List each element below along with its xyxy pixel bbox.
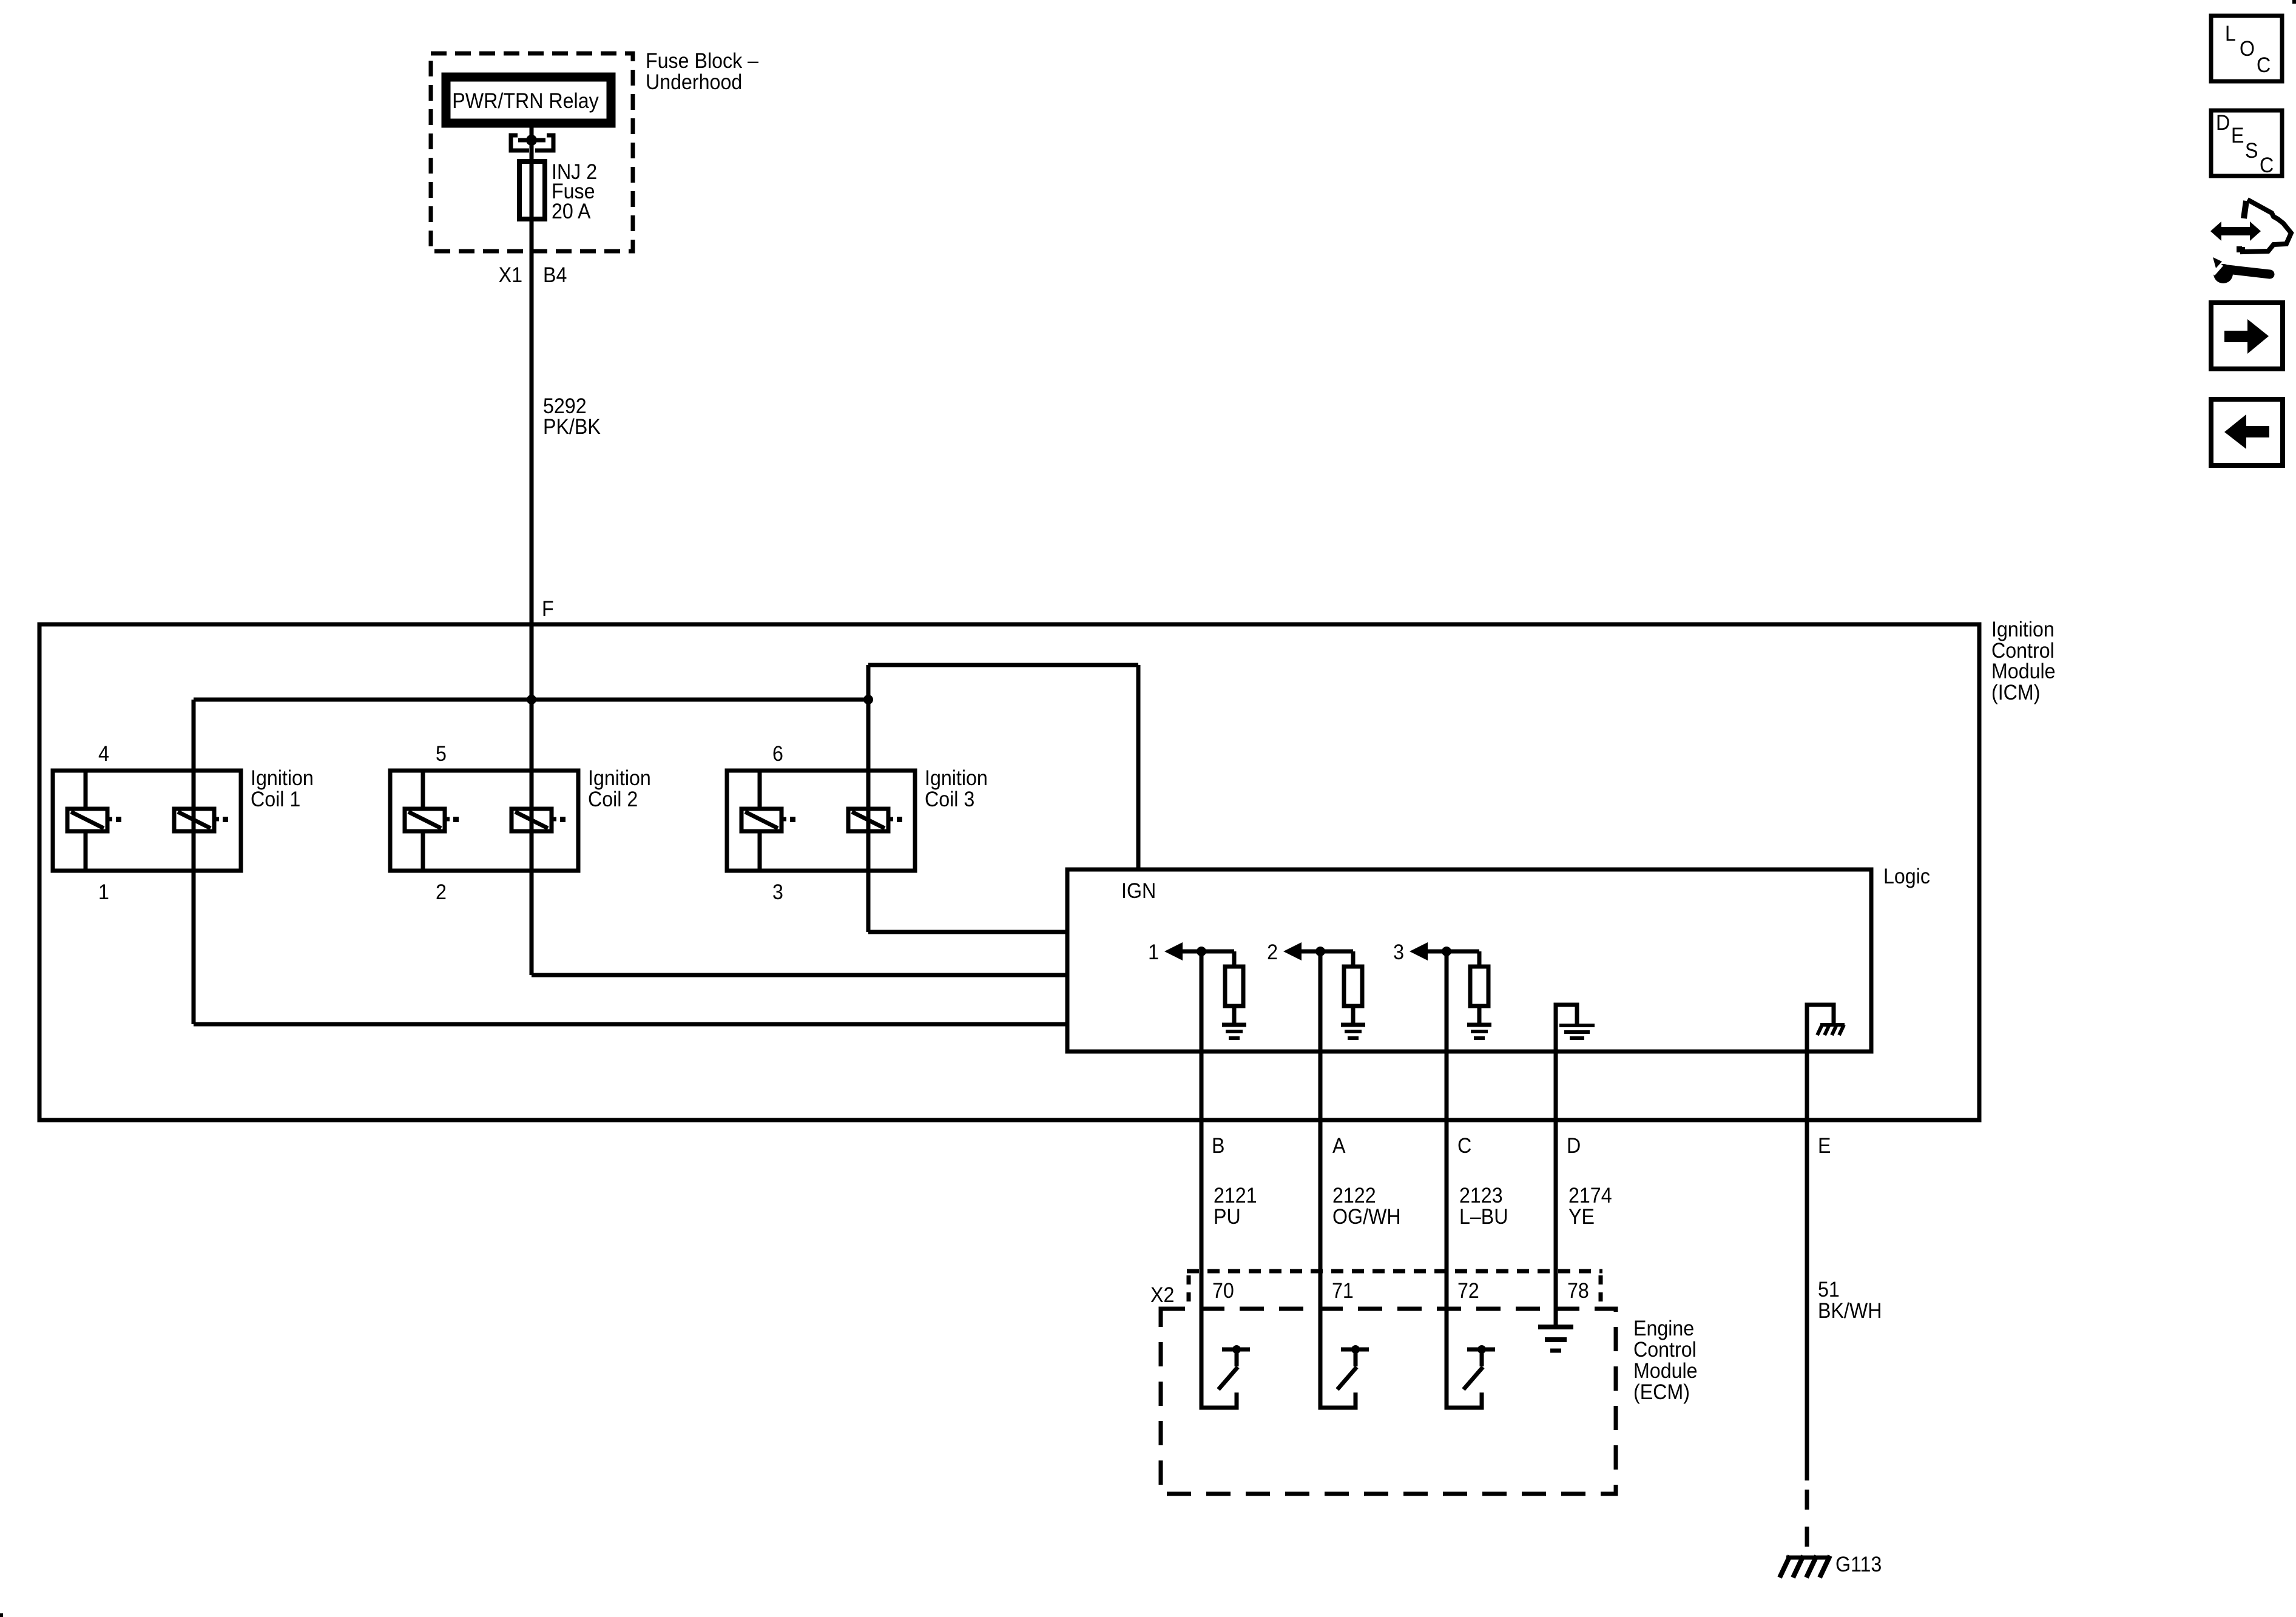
connector bracket right bbox=[535, 135, 553, 150]
svg-text:71: 71 bbox=[1332, 1280, 1354, 1303]
svg-text:C: C bbox=[2260, 154, 2274, 178]
wire D channel inside IGN bbox=[1556, 1005, 1577, 1052]
wire E (51 BK/WH) solid part bbox=[1805, 1052, 1809, 1480]
label INJ 2 Fuse 20 A bbox=[552, 161, 597, 224]
wire label 5292 PK/BK bbox=[543, 395, 601, 439]
arrow input 3 bbox=[1410, 942, 1428, 960]
wire D (2174 YE) bbox=[1554, 1052, 1558, 1325]
svg-text:X1: X1 bbox=[499, 264, 522, 288]
resistor R2 bbox=[1344, 967, 1362, 1006]
svg-text:2121: 2121 bbox=[1214, 1184, 1257, 1208]
label D E S C bbox=[2216, 112, 2274, 178]
coil 2 primary element bbox=[405, 771, 459, 871]
ground (earth) D channel bbox=[1559, 1025, 1595, 1038]
wire coil3 loop top bbox=[868, 663, 1138, 667]
wire supply bus horizontal bbox=[194, 698, 868, 702]
svg-text:Control: Control bbox=[1991, 640, 2055, 663]
icon box DESC bbox=[2211, 110, 2282, 176]
svg-text:2: 2 bbox=[1267, 941, 1278, 965]
wire resistor bottom 2 bbox=[1351, 1006, 1356, 1023]
label Ignition Control Module (ICM) bbox=[1991, 618, 2056, 705]
ground (earth) pin 78 bbox=[1538, 1327, 1573, 1351]
wire resistor bottom 1 bbox=[1232, 1006, 1237, 1023]
driver switch Q2 in ECM bbox=[1320, 1345, 1369, 1408]
arrow left bbox=[2224, 414, 2269, 449]
wire label 2123 L-BU bbox=[1459, 1184, 1508, 1229]
svg-text:Module: Module bbox=[1991, 660, 2056, 684]
svg-text:Coil 3: Coil 3 bbox=[925, 788, 974, 812]
wire label 2122 OG/WH bbox=[1332, 1184, 1401, 1229]
svg-text:4: 4 bbox=[98, 743, 109, 766]
svg-text:L–BU: L–BU bbox=[1459, 1206, 1508, 1229]
icon box arrow left bbox=[2211, 399, 2283, 465]
wire E channel inside IGN bbox=[1807, 1005, 1834, 1052]
wire coil1 to IGN bbox=[194, 1022, 1067, 1027]
svg-text:S: S bbox=[2245, 140, 2258, 163]
svg-text:1: 1 bbox=[98, 881, 109, 905]
svg-text:5: 5 bbox=[436, 743, 447, 766]
wire resistor top 2 bbox=[1351, 951, 1356, 967]
svg-text:Ignition: Ignition bbox=[588, 767, 651, 791]
coil 2 secondary element bbox=[512, 809, 566, 831]
driver switch Q3 in ECM bbox=[1447, 1345, 1495, 1408]
fuse block - underhood (dashed box) bbox=[431, 53, 633, 251]
svg-text:PU: PU bbox=[1214, 1206, 1241, 1229]
svg-text:2123: 2123 bbox=[1459, 1184, 1503, 1208]
wire arrow 3 to resistor bbox=[1425, 950, 1479, 954]
wire A (2122 OG/WH) bbox=[1319, 951, 1323, 1408]
wire relay to fuse bbox=[530, 124, 534, 161]
icon hand with double arrow and wrench bbox=[2203, 200, 2291, 283]
wire coil3 to IGN bbox=[868, 930, 1067, 934]
coil 3 primary element bbox=[741, 771, 795, 871]
junction connector dot bbox=[526, 135, 537, 146]
corner mark top right bbox=[2292, 0, 2296, 4]
fuse INJ 2 Fuse 20 A bbox=[519, 161, 545, 219]
svg-text:2: 2 bbox=[436, 881, 447, 905]
wire arrow 1 to resistor bbox=[1180, 950, 1234, 954]
svg-text:Ignition: Ignition bbox=[251, 767, 314, 791]
svg-text:PWR/TRN Relay: PWR/TRN Relay bbox=[452, 90, 599, 113]
svg-text:3: 3 bbox=[1393, 941, 1404, 965]
svg-text:BK/WH: BK/WH bbox=[1818, 1300, 1882, 1323]
svg-text:C: C bbox=[2257, 54, 2271, 78]
svg-text:(ECM): (ECM) bbox=[1633, 1381, 1690, 1405]
svg-text:70: 70 bbox=[1212, 1280, 1234, 1303]
corner mark bottom left bbox=[0, 1613, 3, 1617]
svg-text:F: F bbox=[542, 598, 554, 621]
wire coil3 vertical bbox=[866, 665, 871, 932]
label Fuse Block - Underhood bbox=[646, 50, 758, 95]
svg-text:YE: YE bbox=[1568, 1206, 1595, 1229]
svg-text:Coil 1: Coil 1 bbox=[251, 788, 300, 812]
wire resistor top 3 bbox=[1477, 951, 1482, 967]
relay PWR/TRN Relay (thick box) bbox=[446, 77, 611, 123]
ignition coil 3 (box) bbox=[727, 771, 915, 871]
connector X2 left dashed end bbox=[1187, 1275, 1191, 1306]
svg-text:2174: 2174 bbox=[1568, 1184, 1612, 1208]
svg-text:Ignition: Ignition bbox=[1991, 618, 2055, 642]
label Ignition Coil 1 bbox=[251, 767, 314, 812]
svg-text:Logic: Logic bbox=[1883, 865, 1930, 889]
svg-text:(ICM): (ICM) bbox=[1991, 681, 2040, 705]
wire label 51 BK/WH bbox=[1818, 1278, 1882, 1323]
svg-text:Underhood: Underhood bbox=[646, 71, 742, 95]
label L O C bbox=[2225, 22, 2271, 78]
svg-text:78: 78 bbox=[1567, 1280, 1589, 1303]
junction dot channel 1 bbox=[1197, 947, 1206, 956]
junction dot channel 3 bbox=[1442, 947, 1451, 956]
svg-text:OG/WH: OG/WH bbox=[1332, 1206, 1401, 1229]
svg-text:B4: B4 bbox=[543, 264, 567, 288]
wire coil2 to IGN bbox=[532, 973, 1067, 977]
wire label 2174 YE bbox=[1568, 1184, 1612, 1229]
junction bus to coil3 drop bbox=[863, 695, 873, 704]
icon box arrow right bbox=[2211, 303, 2283, 369]
coil 1 secondary element bbox=[174, 809, 228, 831]
resistor R1 bbox=[1225, 967, 1243, 1006]
svg-text:5292: 5292 bbox=[543, 395, 587, 419]
svg-text:PK/BK: PK/BK bbox=[543, 416, 601, 439]
wire resistor bottom 3 bbox=[1477, 1006, 1482, 1023]
wire C (2123 L-BU) bbox=[1445, 951, 1449, 1408]
svg-text:A: A bbox=[1332, 1135, 1346, 1158]
svg-text:Fuse Block –: Fuse Block – bbox=[646, 50, 758, 73]
wire B (2121 PU) bbox=[1200, 951, 1204, 1408]
svg-text:3: 3 bbox=[772, 881, 783, 905]
connector bracket left bbox=[511, 135, 529, 150]
svg-text:51: 51 bbox=[1818, 1278, 1840, 1302]
svg-text:B: B bbox=[1212, 1135, 1224, 1158]
wire coil3 loop right to IGN top bbox=[1136, 665, 1141, 869]
arrow right bbox=[2224, 319, 2269, 354]
resistor R3 bbox=[1470, 967, 1488, 1006]
svg-text:Module: Module bbox=[1633, 1360, 1698, 1383]
junction fuse wire to bus bbox=[527, 695, 536, 704]
label Ignition Coil 2 bbox=[588, 767, 651, 812]
svg-text:G113: G113 bbox=[1835, 1553, 1882, 1577]
svg-text:E: E bbox=[2231, 124, 2244, 148]
arrow input 1 bbox=[1164, 942, 1183, 960]
module Engine Control Module ECM (dashed box) bbox=[1161, 1309, 1616, 1494]
svg-text:6: 6 bbox=[772, 743, 783, 766]
svg-text:C: C bbox=[1457, 1135, 1471, 1158]
ground (chassis) E channel bbox=[1817, 1025, 1845, 1035]
svg-text:1: 1 bbox=[1148, 941, 1159, 965]
wire fuse output down through connector X1 B4 bbox=[530, 161, 534, 700]
coil 1 primary element bbox=[67, 771, 121, 871]
ground G113 (chassis) bbox=[1780, 1556, 1830, 1578]
svg-text:X2: X2 bbox=[1150, 1284, 1174, 1308]
module Ignition Control Module ICM (box) bbox=[39, 624, 1979, 1120]
wire coil1 supply drop bbox=[192, 700, 196, 1024]
svg-text:20 A: 20 A bbox=[552, 200, 591, 224]
coil 3 secondary element bbox=[848, 809, 902, 831]
svg-text:D: D bbox=[2216, 112, 2230, 135]
ground (earth) R1 bbox=[1222, 1025, 1246, 1038]
icon box LOC bbox=[2211, 16, 2282, 81]
wire arrow 2 to resistor bbox=[1299, 950, 1353, 954]
junction dot channel 2 bbox=[1315, 947, 1325, 956]
label Engine Control Module (ECM) bbox=[1633, 1317, 1698, 1405]
svg-text:D: D bbox=[1567, 1135, 1581, 1158]
svg-text:Coil 2: Coil 2 bbox=[588, 788, 638, 812]
label Ignition Coil 3 bbox=[925, 767, 988, 812]
connector X2 row top dashed bbox=[1187, 1269, 1602, 1274]
wire coil2 supply drop bbox=[530, 700, 534, 975]
svg-text:72: 72 bbox=[1457, 1280, 1479, 1303]
arrow input 2 bbox=[1283, 942, 1302, 960]
ground (earth) R3 bbox=[1467, 1025, 1491, 1038]
wire label 2121 PU bbox=[1214, 1184, 1257, 1229]
wire resistor top 1 bbox=[1232, 951, 1237, 967]
driver switch Q1 in ECM bbox=[1201, 1345, 1250, 1408]
ignition coil 2 (box) bbox=[390, 771, 578, 871]
connector X2 right dashed end bbox=[1599, 1275, 1603, 1306]
svg-text:E: E bbox=[1818, 1135, 1831, 1158]
ground (earth) R2 bbox=[1341, 1025, 1365, 1038]
svg-text:2122: 2122 bbox=[1332, 1184, 1376, 1208]
connector terminal bar bbox=[518, 138, 545, 143]
svg-text:IGN: IGN bbox=[1121, 880, 1156, 903]
svg-text:Engine: Engine bbox=[1633, 1317, 1694, 1341]
wire E dashed part to G113 bbox=[1805, 1490, 1809, 1555]
svg-text:L: L bbox=[2225, 22, 2236, 46]
svg-text:O: O bbox=[2240, 38, 2255, 61]
svg-text:Control: Control bbox=[1633, 1338, 1697, 1362]
logic block IGN (box) bbox=[1067, 869, 1871, 1052]
ignition coil 1 (box) bbox=[53, 771, 241, 871]
svg-text:Ignition: Ignition bbox=[925, 767, 988, 791]
